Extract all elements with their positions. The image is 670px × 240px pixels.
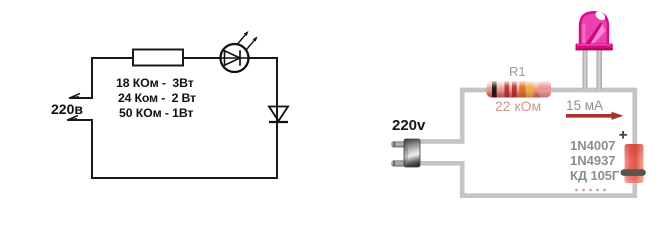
diode cathode band: [621, 169, 646, 176]
arrowhead bottom 220v terminal: [67, 116, 78, 121]
label resistor options line 3: [119, 106, 193, 120]
resistor R1 body: [487, 81, 552, 98]
label 220в: [51, 101, 83, 117]
label КД 105Г: [570, 168, 620, 183]
arrowhead top 220v terminal: [69, 94, 80, 99]
wire bottom (left circuit): [91, 177, 278, 179]
label 1N4007: [570, 138, 616, 153]
LED light arrow 1: [238, 31, 249, 44]
label 15 мА: [566, 98, 603, 113]
label 220v: [392, 117, 426, 134]
LED leg right: [597, 49, 603, 89]
label 1N4937: [570, 153, 616, 168]
svg-text:50 КОм - 1Вт: 50 КОм - 1Вт: [119, 106, 193, 120]
svg-text:220в: 220в: [51, 101, 83, 117]
svg-text:1N4937: 1N4937: [570, 153, 616, 168]
plug prong top: [391, 141, 406, 147]
current direction arrow: [566, 112, 624, 120]
svg-text:220v: 220v: [392, 117, 426, 134]
dotted mark under labels: [575, 189, 606, 192]
LED circle (left circuit): [221, 44, 249, 72]
plug body: [404, 139, 420, 167]
svg-text:15 мА: 15 мА: [566, 98, 603, 113]
wire left lower (left circuit): [68, 120, 92, 178]
label R1: [509, 64, 526, 79]
label 22 кОм: [495, 98, 541, 114]
wire loop (right circuit): [420, 90, 635, 196]
svg-text:КД 105Г: КД 105Г: [570, 168, 620, 183]
wire right side (left circuit): [276, 57, 278, 178]
LED body: [579, 10, 609, 45]
label resistor options line 1: [116, 76, 194, 90]
svg-text:24 Ком - 2 Вт: 24 Ком - 2 Вт: [118, 91, 196, 105]
plug prong bottom: [391, 160, 406, 166]
wire left upper (left circuit): [70, 57, 92, 98]
diode body: [625, 144, 644, 183]
svg-text:1N4007: 1N4007: [570, 138, 616, 153]
LED flange: [576, 44, 613, 51]
svg-text:22 кОм: 22 кОм: [495, 98, 541, 114]
wire top (left circuit): [92, 57, 277, 59]
plus sign at diode: [619, 131, 627, 139]
LED light arrow 2: [247, 37, 258, 50]
svg-text:18 КОм - 3Вт: 18 КОм - 3Вт: [116, 76, 194, 90]
resistor (left circuit, rectangle symbol): [133, 50, 183, 66]
label resistor options line 2: [118, 91, 196, 105]
diode (left circuit): [269, 107, 288, 123]
svg-text:R1: R1: [509, 64, 526, 79]
LED leg left: [583, 49, 588, 89]
